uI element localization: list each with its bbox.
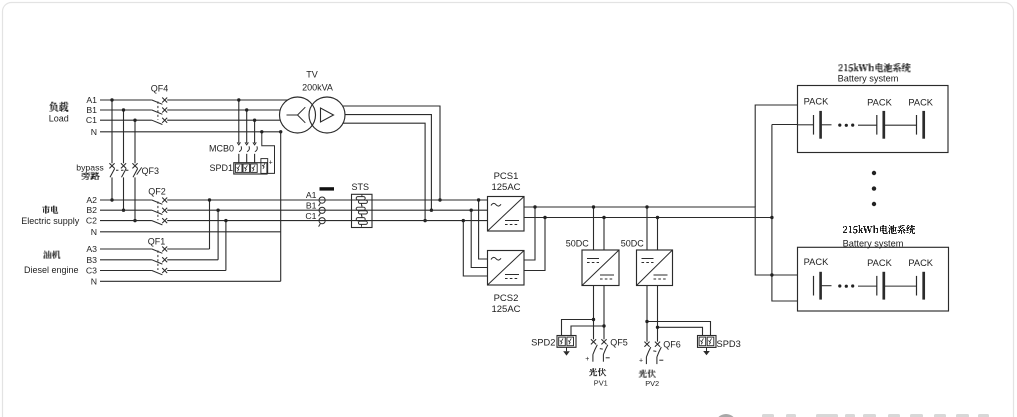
wire SPD2 tap 2 [571,326,604,336]
junction SPD2t1 [592,318,595,321]
junction N-SPD1 [260,130,263,133]
wire C2 mains line [100,220,488,222]
node label A2 mains [86,195,97,205]
label Electric supply [21,216,80,226]
node label C1 load [86,115,97,125]
label panglu (bypass CN) [82,172,100,180]
label shidian (mains CN) [42,206,58,214]
svg-text:PCS2: PCS2 [494,293,519,304]
svg-text:A3: A3 [86,244,97,254]
junction bypass bottom 1 [110,198,113,201]
node label N mains [91,227,97,237]
wire battery top neg stub [772,124,798,126]
label Load [49,114,69,124]
wire TV secondary b [345,115,431,211]
wire DC2 to QF6 right [657,286,659,342]
svg-text:125AC: 125AC [491,182,520,193]
wire A2 mains line [100,199,488,201]
svg-text:PV1: PV1 [594,378,608,387]
label PV2 [645,379,659,388]
svg-text:B3: B3 [86,255,97,265]
svg-text:Electric supply: Electric supply [21,216,80,226]
junction SPD3t2 [656,326,659,329]
svg-text:QF5: QF5 [610,337,628,347]
converter PCS2 [488,251,525,316]
svg-text:SPD1: SPD1 [209,163,233,173]
ellipsis dots between batteries [872,171,876,206]
wire A3 diesel line [100,200,210,249]
svg-text:PACK: PACK [804,96,829,106]
svg-text:MCB0: MCB0 [209,143,234,153]
junction bypass bottom 2 [122,209,125,212]
wire DC bus positive [524,207,798,275]
label battery system 2 CN [843,225,915,234]
surge protector SPD3 [698,336,741,350]
label bypass [76,162,104,172]
wire B1 load line [100,109,281,111]
svg-text:QF4: QF4 [151,84,169,94]
svg-text:A1: A1 [306,190,317,200]
junction PCS2out1 [533,205,536,208]
wire A1 load line [100,99,288,101]
label youji (diesel CN) [43,251,60,259]
label Battery system 2 [843,238,904,248]
junction TVa-A [438,198,441,201]
label QF5 plus [585,356,589,363]
busbar mark [320,187,335,190]
junction SPD2t2 [602,324,605,327]
node label C2 mains [86,216,97,226]
svg-text:N: N [91,227,97,237]
wire DC1 neg drop [603,218,605,251]
label QF5 minus [606,357,610,359]
surge protector SPD1 [209,159,272,174]
svg-text:B1: B1 [306,200,317,210]
label Diesel engine [24,265,79,275]
converter DC1 (50DC) [566,238,619,285]
svg-text:Diesel engine: Diesel engine [24,265,79,275]
svg-text:PACK: PACK [867,97,892,107]
junction TVb-B [430,209,433,212]
wire C1 load line [100,119,281,121]
svg-text:Load: Load [49,114,69,124]
junction bypass bottom 3 [133,219,136,222]
junction DC1n [602,216,605,219]
breaker MCB0 pole B [245,110,249,163]
wire DC2 neg drop [657,218,659,251]
junction DC2n [656,216,659,219]
svg-text:STS: STS [352,182,370,192]
svg-text:SPD3: SPD3 [717,339,741,349]
junction DC2p [645,205,648,208]
junction A3-A2 [208,198,211,201]
wire C3 diesel line [100,221,226,271]
node label N diesel [91,276,97,286]
svg-text:B1: B1 [86,105,97,115]
wire SPD3 tap 2 [658,327,703,335]
wire battery riser negative [772,125,798,302]
wire DC1 pos drop [593,207,595,250]
wire DC1 to QF5 right [603,286,605,340]
svg-text:C1: C1 [86,115,97,125]
svg-text:QF6: QF6 [663,339,681,349]
svg-text:QF1: QF1 [148,237,166,247]
junction bypass top 2 [122,108,125,111]
svg-text:PCS1: PCS1 [494,171,519,182]
wire N diesel line [100,280,281,282]
battery system box 2 [798,247,949,311]
junction bypass top 3 [133,119,136,122]
junction PCS2b [470,209,473,212]
junction B3-B2 [216,209,219,212]
svg-text:PACK: PACK [804,257,829,267]
wire PCS2 output 1 [524,207,535,260]
svg-text:PACK: PACK [867,258,892,268]
svg-text:C3: C3 [86,266,97,276]
breaker MCB0 pole C [253,120,257,163]
converter DC2 (50DC) [621,238,673,285]
converter PCS1 [488,171,525,231]
wire B3 diesel line [100,210,218,260]
node label B2 mains [86,205,97,215]
transformer TV winding 2 (delta) [309,97,345,133]
wire DC1 to QF5 left [593,286,595,340]
label QF6 plus [639,358,643,365]
wire bypass vertical 2 [123,110,125,210]
transformer TV winding 1 (wye) [280,97,316,133]
svg-text:A2: A2 [86,195,97,205]
wire bypass vertical 3 [134,120,136,220]
node label C3 diesel [86,266,97,276]
wire PCS2 input c [463,221,487,276]
node label B3 diesel [86,255,97,265]
label Battery system 1 [838,74,899,84]
junction MCB0-C1 [253,119,256,122]
node label B1 sts [306,200,317,210]
wire bypass vertical 1 [111,100,113,200]
junction busneg riser [770,216,773,219]
wire DC2 pos drop [646,207,648,250]
node label C1 sts [305,211,316,221]
wire TV secondary c [343,123,425,220]
node label A3 diesel [86,244,97,254]
watermark logo (cropped) [715,414,989,417]
wire SPD2 tap 1 [562,320,594,336]
svg-text:50DC: 50DC [566,238,590,248]
wire PCS2 input a [479,200,488,259]
svg-text:TV: TV [306,70,318,80]
label guangfu PV1 CN [589,368,606,376]
wire DC bus negative [524,217,772,219]
svg-text:N: N [91,276,97,286]
junction PCS2a [477,198,480,201]
svg-text:50DC: 50DC [621,238,645,248]
breaker QF6 [644,339,680,364]
node label B1 load [86,105,97,115]
wire DC2 to QF6 left [646,286,648,342]
junction TVc-C [423,219,426,222]
wire N to SPD1 [262,132,275,174]
wire B2 mains line [100,209,488,211]
junction MCB0-A1 [237,98,240,101]
svg-text:200kVA: 200kVA [302,83,333,93]
wire N mains line [100,231,281,233]
breaker QF1 [148,237,167,275]
wire N riser vertical [280,132,282,281]
label guangfu PV2 CN [639,370,656,378]
label PV1 [594,378,608,387]
svg-text:N: N [91,127,97,137]
ground SPD2 [563,347,570,355]
junction C3-C2 [224,219,227,222]
label QF6 minus [659,359,663,361]
battery system box 1 [798,86,949,153]
node label A1 sts [306,190,317,200]
breaker QF3 [109,163,159,177]
svg-text:Battery system: Battery system [838,74,899,84]
junction DC1p [592,205,595,208]
svg-text:PV2: PV2 [645,379,659,388]
svg-text:PACK: PACK [908,97,933,107]
svg-text:QF3: QF3 [142,166,160,176]
svg-text:SPD2: SPD2 [531,337,555,347]
junction SPD3t1 [645,320,648,323]
junction PCS2c [462,219,465,222]
svg-text:C2: C2 [86,216,97,226]
wire PCS2 output 2 [524,218,545,271]
breaker QF2 [148,187,167,225]
svg-text:A1: A1 [86,95,97,105]
wire battery riser positive top [755,105,797,207]
connector circle B [319,207,326,216]
label battery system 1 CN [839,63,911,72]
svg-text:B2: B2 [86,205,97,215]
breaker QF5 [591,337,628,361]
junction riser cross [770,273,773,276]
svg-text:+: + [639,358,643,365]
transformer TV labels [302,70,333,93]
svg-text:QF2: QF2 [148,187,166,197]
breaker QF4 [151,84,169,125]
surge protector SPD2 [531,336,576,348]
wire PCS2 input b [471,210,487,267]
label fuzai (Load CN) [49,102,68,112]
node label A1 load [86,95,97,105]
connector circle C [319,218,326,227]
svg-text:125AC: 125AC [491,304,520,315]
junction MCB0-B1 [245,108,248,111]
svg-text:C1: C1 [305,211,316,221]
svg-text:bypass: bypass [76,162,104,172]
svg-text:+: + [585,356,589,363]
ground SPD3 [703,347,710,355]
wire TV secondary a [343,106,440,200]
junction N riser [279,130,282,133]
svg-text:PACK: PACK [908,258,933,268]
breaker MCB0 pole A [237,100,241,163]
junction bypass top 1 [110,98,113,101]
svg-text:+: + [269,160,273,167]
static switch STS [352,182,373,227]
wire N load line [100,131,281,133]
connector circle A [319,197,326,206]
wire SPD3 tap 1 [647,322,711,336]
junction PCS2out2 [543,216,546,219]
label MCB0 [209,143,234,153]
node label N load [91,127,97,137]
